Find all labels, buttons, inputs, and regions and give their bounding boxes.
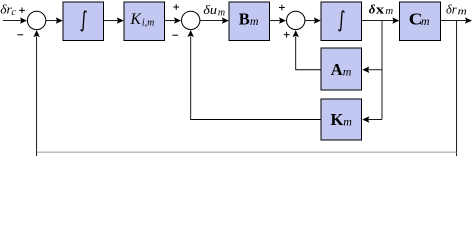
minus sign at S1 feedback input [17,34,23,36]
svg-text:m: m [218,7,225,18]
wire Ki,m to summing junction S2 [165,17,181,23]
svg-text:δr: δr [446,2,457,16]
block Bm [229,2,270,41]
wire outer feedback: drop from output node [456,21,458,156]
wire Cm to output [441,17,472,23]
svg-text:m: m [343,65,352,79]
svg-text:m: m [458,6,467,18]
svg-text:K: K [331,110,344,129]
svg-text:m: m [421,14,430,28]
wire Km output to S2 [188,30,322,120]
wire I1 to gain block Ki,m [104,17,124,23]
node label δu_m [203,3,225,19]
svg-text:δu: δu [203,3,217,17]
minus sign at S2 feedback input [172,34,178,36]
summing junction S1 [27,11,45,29]
svg-text:A: A [331,60,343,79]
svg-text:c: c [11,7,16,18]
wire outer feedback: rise into S1 [33,30,39,156]
integrator block I1 [63,2,104,41]
wire Am output to S3 [293,30,322,70]
wire input to summing junction S1 [3,17,27,23]
summing junction S3 [287,11,305,29]
plus sign at S2 input [173,4,179,10]
plus sign at S3 feedback input [284,32,290,38]
wire state tap down from node δx_m [381,21,383,120]
wire branch into Am [362,67,382,74]
svg-text:m: m [385,5,393,17]
plus sign at S1 reference input [19,8,25,14]
block Km [321,99,362,140]
wire S2 to block Bm [200,17,229,23]
summing junction S2 [182,11,200,29]
svg-text:i,m: i,m [142,17,155,28]
wire I2 to block Cm [362,17,399,23]
wire outer feedback: bottom run [37,151,457,153]
svg-text:x: x [376,3,385,17]
block Cm [400,2,441,41]
wire branch into Km [362,116,382,122]
wire Bm to summing junction S3 [270,17,286,23]
node label δr_m [446,2,467,17]
integrator block I2 [321,2,362,41]
svg-text:m: m [343,115,352,129]
wire S1 to integrator I1 [46,17,63,23]
node label δx_m (state vector) [369,1,394,17]
gain block Ki,m [124,2,165,41]
svg-text:m: m [250,14,259,28]
svg-text:K: K [130,11,142,28]
plus sign at S3 input [279,5,285,11]
svg-text:B: B [239,10,250,29]
block Am [321,48,362,90]
svg-text:δ: δ [369,1,376,16]
node label δr_c [0,2,16,18]
wire S3 to integrator I2 [305,17,321,23]
